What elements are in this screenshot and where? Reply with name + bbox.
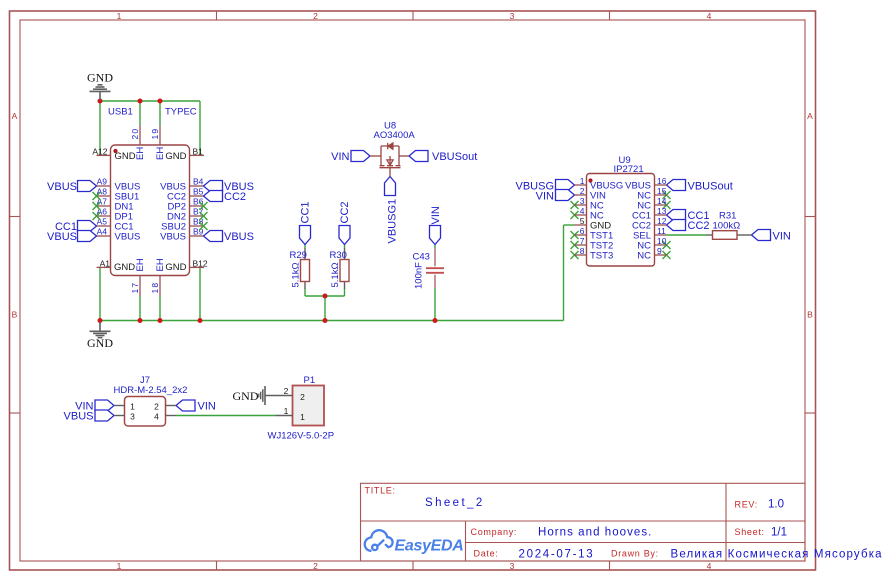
svg-text:GND: GND <box>233 389 259 403</box>
svg-text:B1: B1 <box>193 147 204 157</box>
svg-text:VIN: VIN <box>773 231 791 243</box>
svg-text:13: 13 <box>657 206 667 216</box>
svg-text:GND: GND <box>590 221 611 232</box>
svg-text:EasyEDA: EasyEDA <box>395 538 464 555</box>
svg-text:VBUSG1: VBUSG1 <box>386 199 398 244</box>
svg-text:TST3: TST3 <box>590 251 613 262</box>
svg-text:5.1kΩ: 5.1kΩ <box>330 262 341 287</box>
svg-text:GND: GND <box>165 151 186 162</box>
svg-text:Drawn By:: Drawn By: <box>611 549 659 559</box>
svg-text:R30: R30 <box>330 250 347 261</box>
svg-text:CC2: CC2 <box>339 201 351 223</box>
svg-text:3: 3 <box>130 412 135 422</box>
svg-text:TITLE:: TITLE: <box>365 486 396 496</box>
svg-text:8: 8 <box>580 246 585 256</box>
svg-text:1: 1 <box>580 176 585 186</box>
svg-text:18: 18 <box>150 282 160 294</box>
svg-text:A9: A9 <box>97 177 108 187</box>
svg-text:CC1: CC1 <box>300 201 312 223</box>
svg-text:VBUS: VBUS <box>224 231 254 243</box>
svg-text:4: 4 <box>580 206 585 216</box>
svg-text:VBUS: VBUS <box>47 181 77 193</box>
svg-text:VBUSout: VBUSout <box>432 151 477 163</box>
svg-text:VIN: VIN <box>198 401 216 413</box>
svg-text:1: 1 <box>130 402 135 412</box>
svg-text:1: 1 <box>117 11 122 21</box>
svg-text:11: 11 <box>657 226 666 236</box>
svg-text:VIN: VIN <box>536 191 554 203</box>
svg-text:7: 7 <box>580 236 585 246</box>
svg-text:Company:: Company: <box>471 527 518 537</box>
svg-text:1: 1 <box>284 406 289 416</box>
svg-text:GND: GND <box>114 262 135 273</box>
svg-text:IP2721: IP2721 <box>614 164 644 175</box>
svg-text:4: 4 <box>707 11 712 21</box>
svg-text:1: 1 <box>117 561 122 571</box>
svg-text:5.1kΩ: 5.1kΩ <box>290 262 301 287</box>
svg-text:4: 4 <box>154 412 159 422</box>
svg-text:Великая Космическая Мясорубка: Великая Космическая Мясорубка <box>671 549 883 561</box>
svg-text:16: 16 <box>657 176 667 186</box>
svg-text:9: 9 <box>657 246 662 256</box>
svg-text:100nF: 100nF <box>413 262 424 289</box>
svg-text:2024-07-13: 2024-07-13 <box>519 549 595 561</box>
svg-text:3: 3 <box>510 561 515 571</box>
svg-text:VBUS: VBUS <box>47 231 77 243</box>
svg-text:1: 1 <box>300 412 305 422</box>
svg-text:2: 2 <box>313 11 318 21</box>
svg-text:GND: GND <box>87 336 113 350</box>
svg-text:2: 2 <box>313 561 318 571</box>
svg-text:B: B <box>807 310 813 320</box>
svg-text:B: B <box>12 310 18 320</box>
svg-text:AO3400A: AO3400A <box>374 130 416 141</box>
svg-text:Horns and hooves.: Horns and hooves. <box>538 527 652 539</box>
svg-text:17: 17 <box>130 282 140 294</box>
svg-text:2: 2 <box>154 402 159 412</box>
svg-text:2: 2 <box>580 186 585 196</box>
svg-text:A12: A12 <box>92 147 107 157</box>
svg-text:GND: GND <box>87 71 113 85</box>
svg-text:4: 4 <box>707 561 712 571</box>
svg-text:REV:: REV: <box>735 500 758 510</box>
svg-text:GND: GND <box>165 262 186 273</box>
svg-text:2: 2 <box>300 392 305 402</box>
svg-text:TYPEC: TYPEC <box>165 106 197 117</box>
svg-text:19: 19 <box>150 128 160 140</box>
svg-text:3: 3 <box>510 11 515 21</box>
svg-text:CC2: CC2 <box>224 191 246 203</box>
svg-text:20: 20 <box>130 128 140 140</box>
svg-text:EH: EH <box>135 258 146 271</box>
svg-text:WJ126V-5.0-2P: WJ126V-5.0-2P <box>268 431 335 442</box>
svg-text:VBUSout: VBUSout <box>688 181 733 193</box>
svg-text:10: 10 <box>657 236 667 246</box>
svg-text:B4: B4 <box>193 177 204 187</box>
svg-text:USB1: USB1 <box>108 106 133 117</box>
svg-text:VIN: VIN <box>430 206 442 224</box>
svg-text:A: A <box>12 111 18 121</box>
svg-text:1/1: 1/1 <box>771 527 787 539</box>
svg-text:B12: B12 <box>193 259 208 269</box>
svg-text:14: 14 <box>657 196 667 206</box>
svg-text:12: 12 <box>657 216 667 226</box>
svg-text:A: A <box>807 111 813 121</box>
svg-text:15: 15 <box>657 186 667 196</box>
svg-text:CC2: CC2 <box>688 220 710 232</box>
svg-text:VBUS: VBUS <box>160 232 186 243</box>
svg-text:C43: C43 <box>413 252 430 263</box>
svg-text:HDR-M-2.54_2x2: HDR-M-2.54_2x2 <box>114 385 188 396</box>
svg-text:2: 2 <box>284 386 289 396</box>
svg-text:100kΩ: 100kΩ <box>713 221 741 232</box>
svg-text:EH: EH <box>135 147 146 160</box>
svg-text:6: 6 <box>580 226 585 236</box>
svg-text:NC: NC <box>637 251 651 262</box>
svg-text:Sheet_2: Sheet_2 <box>425 497 485 509</box>
svg-text:Sheet:: Sheet: <box>735 527 765 537</box>
svg-text:P1: P1 <box>304 375 316 386</box>
svg-text:1.0: 1.0 <box>768 499 784 511</box>
svg-text:GND: GND <box>115 151 136 162</box>
svg-text:VBUS: VBUS <box>115 232 141 243</box>
svg-text:B5: B5 <box>193 187 204 197</box>
svg-text:R29: R29 <box>290 250 307 261</box>
svg-text:Date:: Date: <box>474 549 499 559</box>
svg-text:A1: A1 <box>100 259 111 269</box>
svg-text:VIN: VIN <box>331 151 349 163</box>
svg-text:5: 5 <box>580 216 585 226</box>
svg-text:A4: A4 <box>97 227 108 237</box>
svg-text:3: 3 <box>580 196 585 206</box>
svg-text:VBUS: VBUS <box>64 411 94 423</box>
